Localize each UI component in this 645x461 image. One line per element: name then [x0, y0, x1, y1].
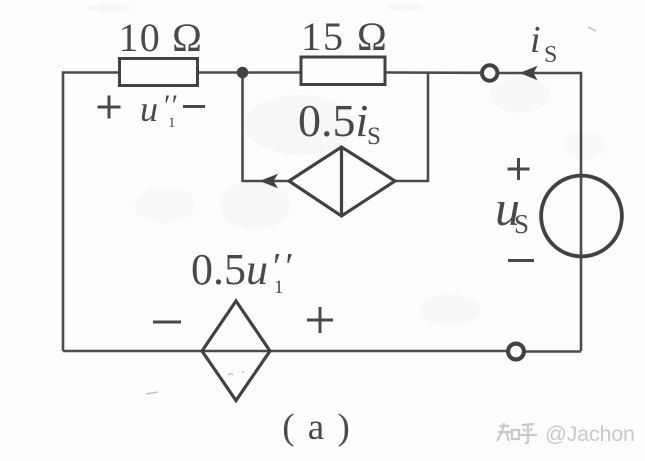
svg-text:S: S — [544, 42, 557, 68]
svg-text:15 Ω: 15 Ω — [301, 14, 389, 59]
svg-text:S: S — [514, 209, 529, 239]
svg-text:1: 1 — [274, 277, 284, 298]
svg-text:S: S — [367, 123, 381, 150]
svg-text:10 Ω: 10 Ω — [119, 15, 204, 60]
svg-text:@Jachon: @Jachon — [545, 422, 635, 446]
svg-text:i: i — [530, 19, 541, 61]
svg-text:u: u — [140, 89, 158, 129]
svg-text:0.5u: 0.5u — [191, 245, 268, 294]
svg-text:( a ): ( a ) — [282, 407, 352, 448]
svg-text:0.5i: 0.5i — [298, 95, 368, 146]
svg-text:1: 1 — [168, 115, 176, 131]
